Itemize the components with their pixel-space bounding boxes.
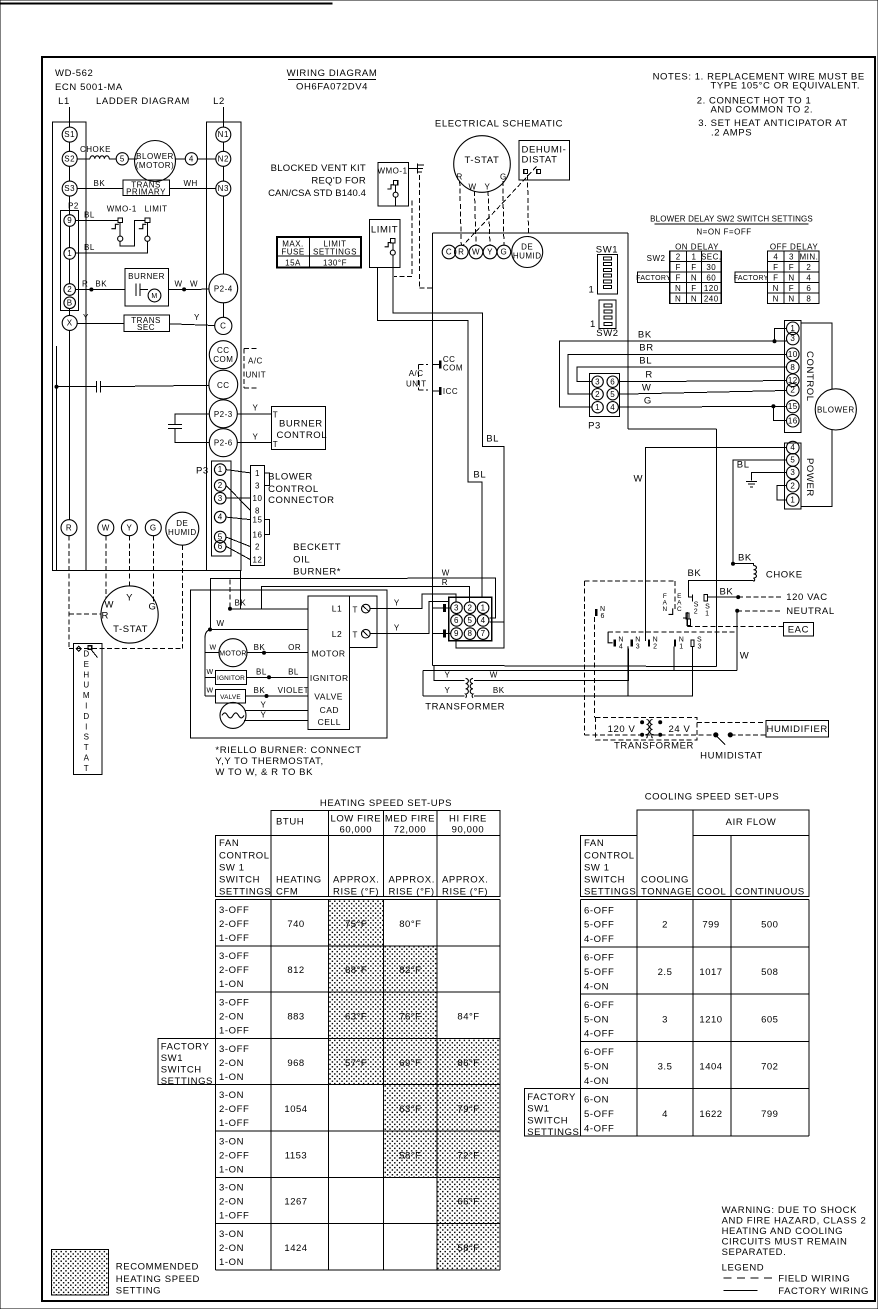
svg-text:Y: Y: [485, 182, 491, 191]
svg-text:N: N: [675, 294, 681, 303]
svg-text:1-OFF: 1-OFF: [219, 1026, 249, 1037]
A/C UNIT bracket schematic: [418, 364, 428, 366]
svg-text:2-OFF: 2-OFF: [219, 1104, 249, 1115]
switch S3: [691, 640, 694, 646]
P2 pin 2: [64, 284, 76, 296]
svg-text:N: N: [653, 637, 658, 644]
svg-text:1: 1: [67, 249, 72, 258]
junction dot 120vac: [736, 595, 740, 599]
switch S2: [692, 595, 694, 602]
9-pin connector box: [449, 597, 492, 641]
svg-text:S: S: [694, 602, 699, 609]
svg-text:3: 3: [595, 377, 600, 386]
dashed wire Y to tstat: [128, 536, 130, 586]
svg-text:SWITCH: SWITCH: [161, 1064, 202, 1075]
svg-text:D: D: [83, 712, 89, 721]
svg-text:R: R: [458, 248, 464, 257]
connector P3 schematic box: [589, 374, 619, 417]
stub ICC: [432, 390, 439, 392]
recommended heating speed stipple box: [51, 1249, 108, 1295]
ladder right rail box: [207, 122, 242, 570]
svg-text:SEC: SEC: [137, 323, 155, 332]
blower motor circle ladder: [135, 141, 176, 182]
svg-text:I: I: [85, 702, 88, 711]
svg-text:Y: Y: [253, 404, 259, 413]
wire X-R rail: [69, 330, 71, 519]
terminal X: [62, 315, 77, 330]
strip jumper 15-16: [265, 520, 270, 535]
svg-text:M: M: [83, 691, 90, 700]
svg-text:8: 8: [255, 507, 260, 516]
svg-text:Y: Y: [394, 599, 400, 608]
factory sw1 label cooling: [525, 1089, 581, 1136]
svg-text:2: 2: [806, 263, 811, 272]
svg-text:3-OFF: 3-OFF: [219, 905, 249, 916]
terminal CC: [209, 370, 238, 399]
svg-text:BLOCKED VENT KIT: BLOCKED VENT KIT: [271, 163, 366, 174]
terminal P2-4: [209, 274, 238, 303]
svg-text:E: E: [84, 660, 90, 669]
svg-text:63°F: 63°F: [399, 1104, 421, 1115]
svg-text:CONTROL: CONTROL: [584, 850, 635, 861]
wires P3 to strip: [226, 470, 251, 473]
svg-text:EAC: EAC: [788, 624, 809, 635]
wire P2-4-C: [222, 303, 224, 318]
LIMIT switch ladder: [145, 218, 150, 223]
svg-text:VALVE: VALVE: [220, 694, 241, 701]
svg-text:L2: L2: [213, 96, 225, 107]
svg-text:58°F: 58°F: [399, 1150, 421, 1161]
svg-text:U: U: [83, 681, 89, 690]
svg-text:L1: L1: [58, 96, 70, 107]
svg-text:G: G: [500, 172, 507, 181]
svg-text:1153: 1153: [285, 1150, 307, 1161]
svg-text:82°F: 82°F: [399, 965, 421, 976]
svg-text:T-STAT: T-STAT: [465, 155, 500, 166]
svg-text:(MOTOR): (MOTOR): [136, 161, 174, 170]
svg-text:BL: BL: [256, 667, 267, 676]
svg-text:3-OFF: 3-OFF: [219, 951, 249, 962]
svg-text:3: 3: [662, 1014, 668, 1025]
dashed EAC wire: [688, 626, 784, 628]
P3s pin 5: [607, 389, 618, 400]
control pins: [787, 322, 800, 335]
svg-text:66°F: 66°F: [457, 1197, 479, 1208]
wire power4 left down to N2 switch: [646, 448, 787, 641]
terminal G schematic: [497, 245, 511, 259]
svg-text:Y: Y: [253, 433, 259, 442]
svg-text:FAN: FAN: [584, 838, 604, 849]
svg-text:240: 240: [704, 294, 719, 303]
svg-text:P2: P2: [68, 202, 79, 211]
svg-text:IGNITOR: IGNITOR: [217, 675, 245, 682]
svg-text:130°F: 130°F: [323, 258, 347, 267]
svg-text:R: R: [457, 172, 463, 181]
terminal S3: [62, 181, 77, 196]
factory label on delay: [638, 272, 670, 283]
svg-text:MOTOR: MOTOR: [219, 650, 246, 657]
svg-text:FIELD WIRING: FIELD WIRING: [778, 1273, 850, 1284]
svg-text:2: 2: [67, 285, 72, 294]
humidifier box: [766, 721, 828, 738]
svg-text:W: W: [642, 382, 652, 393]
svg-text:WH: WH: [184, 179, 198, 188]
svg-text:CAN/CSA STD B140.4: CAN/CSA STD B140.4: [268, 188, 366, 199]
svg-text:68°F: 68°F: [345, 965, 367, 976]
svg-text:1: 1: [255, 469, 260, 478]
wire W ignitor: [205, 676, 216, 678]
svg-text:MED FIRE: MED FIRE: [385, 814, 435, 825]
wire CC branch capacitor: [57, 386, 97, 388]
svg-text:1424: 1424: [284, 1243, 307, 1254]
dashed wire tstat W to W: [475, 191, 477, 245]
svg-text:N: N: [675, 284, 681, 293]
svg-text:F: F: [789, 263, 794, 272]
svg-text:4: 4: [189, 154, 194, 163]
wire N2-N3: [222, 166, 224, 181]
P3s pin 4: [607, 402, 618, 413]
dashed wire WMO-1 to schematic box: [418, 175, 420, 288]
svg-text:1054: 1054: [284, 1104, 307, 1115]
terminal C: [215, 317, 232, 334]
dashed N6 lead: [594, 617, 596, 718]
wire P2-6 Y to burner control: [237, 442, 271, 444]
svg-text:SETTING: SETTING: [116, 1286, 161, 1297]
svg-text:VIOLET: VIOLET: [278, 686, 309, 695]
legend field wiring dashed: [724, 1277, 774, 1279]
wire BL pin3 to control 8: [577, 367, 787, 382]
svg-text:SETTINGS: SETTINGS: [219, 887, 271, 898]
dehumidistat box bottom: [73, 643, 102, 774]
switch N3: [631, 639, 633, 646]
svg-text:HEATING SPEED: HEATING SPEED: [116, 1274, 200, 1285]
svg-text:2: 2: [468, 603, 473, 612]
svg-text:1: 1: [590, 319, 596, 330]
svg-text:BL: BL: [84, 243, 95, 252]
svg-text:AIR FLOW: AIR FLOW: [726, 817, 777, 828]
cooling table header air flow: [637, 810, 809, 897]
wire BK S2 from choke: [688, 581, 753, 598]
svg-text:AND FIRE HAZARD, CLASS 2: AND FIRE HAZARD, CLASS 2: [722, 1216, 867, 1227]
svg-text:72°F: 72°F: [457, 1150, 479, 1161]
svg-text:N: N: [773, 294, 779, 303]
svg-text:LIMIT: LIMIT: [145, 205, 168, 214]
svg-text:VALVE: VALVE: [314, 692, 343, 702]
burner M motor: [148, 289, 161, 302]
svg-text:S: S: [697, 637, 702, 644]
svg-text:10: 10: [253, 494, 263, 503]
svg-text:BL: BL: [288, 667, 299, 676]
svg-text:2-ON: 2-ON: [219, 1243, 244, 1254]
svg-text:1-OFF: 1-OFF: [219, 1211, 249, 1222]
svg-text:1210: 1210: [699, 1014, 722, 1025]
svg-text:702: 702: [761, 1062, 778, 1073]
heating table header row2: [216, 835, 500, 896]
svg-text:F: F: [676, 263, 681, 272]
svg-text:W: W: [207, 688, 214, 695]
wire trans-N3 WH: [169, 188, 216, 190]
svg-text:BK: BK: [95, 280, 107, 289]
svg-text:T: T: [273, 440, 278, 449]
burner inner box: [308, 596, 349, 729]
burner screws box: [349, 596, 377, 648]
svg-text:BK: BK: [493, 686, 505, 695]
svg-text:SEC.: SEC.: [701, 252, 722, 261]
svg-text:Y,Y TO THERMOSTAT,: Y,Y TO THERMOSTAT,: [215, 756, 323, 767]
svg-text:N: N: [788, 273, 794, 282]
svg-text:WD-562: WD-562: [55, 68, 93, 79]
dashed wire G to tstat: [152, 536, 154, 602]
svg-text:9: 9: [67, 216, 72, 225]
svg-text:5: 5: [610, 390, 615, 399]
svg-text:CONTINUOUS: CONTINUOUS: [735, 887, 805, 898]
svg-text:W: W: [442, 568, 450, 577]
connector P3 ladder box: [212, 461, 232, 556]
svg-text:SW 1: SW 1: [584, 862, 610, 873]
svg-text:BL: BL: [737, 459, 750, 470]
svg-text:F: F: [773, 273, 778, 282]
svg-text:BTUH: BTUH: [276, 817, 304, 828]
svg-text:120: 120: [704, 284, 719, 293]
svg-text:A/C: A/C: [409, 369, 424, 378]
wire W motor: [205, 652, 219, 654]
EAC box: [784, 623, 814, 636]
factory label off delay: [735, 272, 767, 283]
cooling table data grid: [580, 900, 808, 1137]
svg-text:N: N: [691, 273, 697, 282]
svg-text:1-ON: 1-ON: [219, 1072, 244, 1083]
svg-text:90,000: 90,000: [452, 825, 485, 836]
wire transformer Y top: [434, 666, 464, 681]
svg-text:2-OFF: 2-OFF: [219, 919, 249, 930]
P3s pin 1: [592, 402, 603, 413]
dehumidistat box schematic: [519, 140, 570, 180]
heating table header row1: [271, 811, 500, 836]
svg-text:CIRCUITS MUST REMAIN: CIRCUITS MUST REMAIN: [722, 1237, 848, 1248]
wire choke top BK: [733, 564, 754, 566]
svg-text:BK: BK: [638, 329, 652, 340]
burner motor circle: [219, 639, 247, 667]
svg-text:ECN 5001-MA: ECN 5001-MA: [55, 82, 123, 93]
svg-text:OFF DELAY: OFF DELAY: [770, 243, 819, 252]
svg-text:BURNER*: BURNER*: [293, 567, 341, 578]
svg-text:60: 60: [706, 273, 716, 282]
P3 pin 3: [214, 492, 226, 504]
schematic main box right: [627, 233, 629, 429]
wire transformer W right: [474, 649, 628, 681]
ground symbol WMO-1: [409, 168, 418, 170]
svg-text:6-OFF: 6-OFF: [584, 905, 614, 916]
dashed NEUTRAL: [737, 610, 783, 612]
svg-text:BK: BK: [94, 179, 106, 188]
svg-text:Y: Y: [83, 313, 89, 322]
svg-text:OH6FA072DV4: OH6FA072DV4: [296, 82, 368, 93]
dashed wire tstat G to G: [503, 181, 504, 245]
wire 1-2: [69, 259, 71, 284]
burner capacitor: [135, 284, 137, 297]
wire BR pin2 to control 10: [568, 355, 787, 395]
svg-text:3-OFF: 3-OFF: [219, 1044, 249, 1055]
P3 pin 1: [214, 464, 226, 476]
svg-text:6: 6: [454, 616, 459, 625]
switch N2: [648, 639, 650, 646]
svg-text:3: 3: [218, 494, 223, 503]
wire N1-N2: [222, 142, 224, 151]
svg-text:1-OFF: 1-OFF: [219, 1118, 249, 1129]
svg-text:1: 1: [705, 611, 709, 618]
svg-text:5-ON: 5-ON: [584, 1062, 609, 1073]
svg-text:L1: L1: [332, 604, 342, 614]
svg-text:Y: Y: [445, 686, 451, 695]
svg-text:BR: BR: [639, 343, 653, 354]
WMO-1 switch ladder: [118, 218, 123, 223]
svg-text:5: 5: [120, 154, 125, 163]
svg-text:HUMIDIFIER: HUMIDIFIER: [766, 724, 827, 735]
wire R run to 9pin pin2: [261, 587, 469, 609]
svg-text:DE: DE: [521, 243, 533, 252]
svg-text:SEPARATED.: SEPARATED.: [722, 1247, 787, 1258]
dehumidistat contacts bottom: [76, 646, 81, 651]
junction dot neutral: [735, 609, 739, 613]
terminal W schematic: [469, 245, 483, 259]
svg-text:BK: BK: [738, 552, 752, 563]
dashed wire tstat R to R: [460, 181, 462, 245]
wire power3 ground: [752, 473, 787, 481]
svg-text:SETTINGS: SETTINGS: [527, 1127, 579, 1138]
wire control to blower: [801, 323, 832, 389]
svg-text:UNIT: UNIT: [406, 379, 427, 388]
svg-text:4-OFF: 4-OFF: [584, 1123, 614, 1134]
svg-text:.2 AMPS: .2 AMPS: [711, 127, 752, 138]
svg-text:Y: Y: [126, 523, 132, 532]
svg-text:W TO W, & R TO BK: W TO W, & R TO BK: [215, 767, 313, 778]
svg-text:BURNER: BURNER: [279, 419, 323, 430]
svg-text:LOW FIRE: LOW FIRE: [330, 814, 381, 825]
svg-text:2: 2: [676, 252, 681, 261]
svg-text:UNIT: UNIT: [246, 371, 267, 380]
junction dot G control: [771, 404, 775, 408]
svg-text:CONNECTOR: CONNECTOR: [268, 495, 334, 506]
svg-text:7: 7: [481, 629, 486, 638]
svg-text:WMO-1: WMO-1: [107, 205, 137, 214]
terminal N1: [216, 127, 231, 142]
WMO-1 box schematic: [378, 162, 408, 206]
wire bottom bus A: [432, 666, 716, 667]
svg-text:D: D: [83, 650, 89, 659]
svg-text:15: 15: [253, 516, 263, 525]
svg-text:2: 2: [790, 481, 795, 490]
svg-text:2-OFF: 2-OFF: [219, 1150, 249, 1161]
wire transformer BK right: [474, 646, 692, 695]
svg-text:2-ON: 2-ON: [219, 1012, 244, 1023]
svg-text:2-ON: 2-ON: [219, 1197, 244, 1208]
svg-text:80°F: 80°F: [399, 919, 421, 930]
svg-text:3: 3: [255, 482, 260, 491]
svg-text:AND COMMON TO 2.: AND COMMON TO 2.: [711, 105, 814, 116]
terminal S1: [62, 127, 77, 142]
svg-text:CONTROL: CONTROL: [268, 484, 319, 495]
terminal DE HUMID schematic: [512, 237, 543, 268]
svg-text:R: R: [66, 523, 72, 532]
svg-text:BLOWER: BLOWER: [268, 472, 313, 483]
burner valve box: [215, 689, 245, 703]
svg-text:BK: BK: [720, 586, 734, 597]
svg-text:F: F: [676, 273, 681, 282]
LIMIT switch schematic: [391, 239, 395, 243]
P3 pin 6: [214, 541, 226, 553]
svg-text:CONTROL: CONTROL: [219, 850, 270, 861]
svg-text:CONTROL: CONTROL: [277, 430, 328, 441]
svg-text:ELECTRICAL SCHEMATIC: ELECTRICAL SCHEMATIC: [435, 119, 563, 130]
switch S1: [704, 595, 707, 601]
ladder bottom connecting line: [86, 569, 207, 571]
wire LIMIT-1 BL: [76, 241, 148, 253]
svg-text:N1: N1: [218, 130, 229, 139]
svg-text:N: N: [635, 637, 640, 644]
svg-text:T: T: [353, 605, 358, 614]
svg-text:TONNAGE: TONNAGE: [641, 887, 692, 898]
svg-text:CFM: CFM: [276, 887, 298, 898]
wire BK S1 to 120vac: [707, 596, 738, 598]
terminal N2: [216, 151, 231, 166]
power pins: [787, 441, 800, 454]
wire burner L1 screw Y to 9pin pin3: [370, 594, 456, 609]
svg-text:APPROX.: APPROX.: [442, 875, 488, 886]
svg-text:LEGEND: LEGEND: [722, 1263, 765, 1274]
svg-text:3-ON: 3-ON: [219, 1229, 244, 1240]
svg-text:2.5: 2.5: [658, 967, 673, 978]
svg-text:R: R: [442, 578, 448, 587]
svg-text:3: 3: [790, 468, 795, 477]
svg-text:3: 3: [790, 334, 795, 343]
svg-text:4: 4: [218, 513, 223, 522]
wire X branch down: [56, 346, 58, 570]
cooling table double line: [580, 896, 808, 898]
svg-text:N: N: [773, 284, 779, 293]
svg-text:16: 16: [253, 531, 263, 540]
wire control jumper 1-3: [775, 328, 787, 341]
junction dot valve wire: [265, 694, 269, 698]
svg-text:WMO-1: WMO-1: [377, 167, 407, 176]
wire ignitor BL BL: [247, 676, 309, 678]
wire neutral drop: [736, 611, 738, 670]
svg-text:FAN: FAN: [219, 838, 239, 849]
svg-text:C: C: [677, 606, 682, 613]
dashed wire WMO-1 to LIMIT: [411, 200, 413, 276]
wires cad cell Y Y: [245, 710, 308, 712]
svg-text:4-ON: 4-ON: [584, 981, 609, 992]
svg-text:RISE (°F): RISE (°F): [389, 887, 435, 898]
svg-text:A/C: A/C: [248, 357, 263, 366]
svg-text:ON DELAY: ON DELAY: [675, 243, 719, 252]
svg-text:605: 605: [761, 1014, 778, 1025]
wire power5 BL down: [733, 460, 787, 564]
svg-text:P3: P3: [588, 421, 601, 432]
svg-text:6: 6: [610, 377, 615, 386]
svg-text:TYPE 105°C OR EQUIVALENT.: TYPE 105°C OR EQUIVALENT.: [711, 80, 861, 91]
svg-text:RISE (°F): RISE (°F): [333, 887, 379, 898]
wire BK pin1 to control: [559, 341, 786, 407]
svg-text:1017: 1017: [699, 967, 722, 978]
svg-text:4: 4: [773, 252, 778, 261]
svg-text:BL: BL: [84, 211, 95, 220]
P3 pin 5: [214, 531, 226, 543]
svg-text:6: 6: [601, 613, 605, 620]
wire S3-trans BK: [77, 188, 123, 190]
svg-text:86°F: 86°F: [457, 1058, 479, 1069]
svg-text:HUMID: HUMID: [168, 528, 197, 537]
legend factory wiring solid: [724, 1289, 758, 1291]
